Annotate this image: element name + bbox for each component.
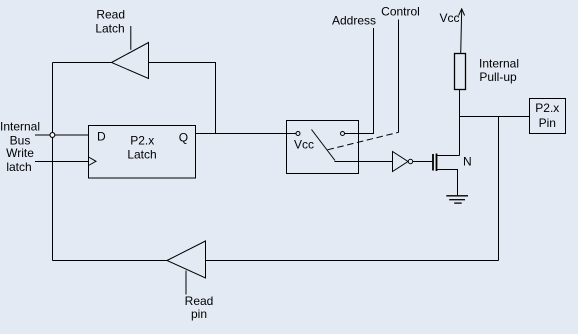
wire: inverter output to transistor gate	[413, 161, 433, 163]
resistor "Internal Pull-up"	[455, 54, 466, 90]
svg-text:Internal: Internal	[0, 120, 40, 134]
switch right contact	[341, 132, 345, 136]
switch lever	[312, 130, 336, 161]
wire: pin wire to P2.x Pin box	[460, 116, 530, 118]
Vcc arrowhead	[459, 9, 465, 16]
wire: address line to right contact	[345, 28, 374, 134]
wire: read latch buffer output to internal bus vertical	[53, 62, 112, 64]
label: Write latch	[6, 146, 34, 174]
label: Read Latch	[95, 8, 125, 36]
wire: transistor source to ground	[437, 170, 458, 196]
svg-text:Vcc: Vcc	[294, 138, 314, 152]
ground	[446, 195, 468, 197]
label: P2.x Latch	[127, 134, 156, 162]
svg-text:Pull-up: Pull-up	[479, 70, 517, 84]
svg-text:Vcc: Vcc	[440, 11, 460, 25]
svg-text:P2.x: P2.x	[130, 134, 154, 148]
read pin label pointer line	[185, 271, 187, 295]
read latch label pointer line	[130, 26, 132, 50]
label: P2.x Pin	[535, 101, 559, 130]
latch U1 "P2.x Latch" box	[89, 126, 196, 179]
svg-text:Read: Read	[96, 8, 125, 22]
tri-state buffer "Read Latch"	[112, 43, 149, 79]
wire: feedback to read pin buffer input	[206, 260, 499, 262]
label: Internal Pull-up	[479, 57, 519, 85]
wire: internal bus stub to latch D input	[35, 134, 89, 136]
label: Internal Bus	[0, 120, 40, 148]
wire: switch output to inverter input	[335, 161, 393, 163]
wire: pull-up to drain junction	[459, 89, 461, 156]
inverter	[393, 152, 409, 172]
svg-text:Address: Address	[332, 14, 376, 28]
svg-text:Control: Control	[381, 5, 420, 19]
dashed control linkage	[328, 132, 399, 150]
P2.x Pin box	[530, 99, 566, 134]
svg-text:N: N	[463, 154, 472, 168]
svg-text:P2.x: P2.x	[535, 101, 559, 115]
tri-state buffer "Read pin"	[167, 241, 206, 278]
wire: transistor drain	[437, 155, 460, 157]
wire: read latch buffer input from Q	[149, 63, 216, 134]
node: internal bus junction	[50, 133, 55, 138]
wire: control line	[398, 20, 400, 133]
transistor N gate bar	[432, 154, 434, 171]
wire: Q output to switch left contact	[196, 133, 296, 135]
switch left contact	[296, 132, 300, 136]
wire: write latch to clock input	[35, 161, 88, 163]
inverter bubble	[408, 159, 412, 163]
svg-text:Write: Write	[6, 146, 34, 160]
clock input wedge	[89, 157, 97, 166]
wire: internal bus vertical	[52, 63, 54, 261]
wire: read pin buffer output to internal bus	[53, 260, 168, 262]
switch box (Vcc / address multiplexer)	[287, 121, 359, 174]
Vcc arrow line	[461, 10, 462, 54]
svg-text:Pin: Pin	[539, 116, 556, 130]
svg-text:D: D	[97, 130, 106, 144]
svg-text:pin: pin	[191, 307, 207, 321]
svg-text:latch: latch	[6, 160, 31, 174]
label: Read pin	[185, 294, 214, 321]
svg-text:Latch: Latch	[127, 148, 156, 162]
svg-text:Internal: Internal	[479, 57, 519, 71]
wire: feedback vertical from pin wire	[498, 117, 500, 261]
transistor N channel bar	[436, 154, 438, 172]
svg-text:Latch: Latch	[95, 22, 124, 36]
svg-text:Q: Q	[179, 131, 188, 145]
